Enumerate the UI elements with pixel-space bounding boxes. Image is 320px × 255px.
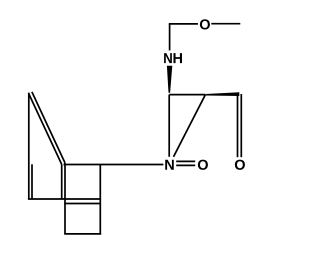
bond square middle horizontal <box>64 203 101 205</box>
wedge bond C2 to CHO <box>206 92 240 96</box>
atom O nitroso <box>198 160 208 170</box>
bond long horizontal lower <box>28 198 101 200</box>
double bond C=O aldehyde line 2 <box>240 94 242 157</box>
bond C1-C2 ring top <box>169 94 205 96</box>
wedge bond NH to C1 <box>167 66 172 93</box>
bond CH2 corner vertical down to NH <box>169 24 171 51</box>
bond C1-N ring left vertical <box>168 95 170 157</box>
atom N nitroso <box>165 160 174 170</box>
double bond C=O aldehyde line 1 <box>237 94 239 157</box>
double bond diagonal line 2 <box>32 92 65 163</box>
double bond partner inner vertical <box>61 164 63 199</box>
bond apex left vertical <box>28 93 30 199</box>
atom O aldehyde <box>235 160 245 170</box>
double bond diagonal line 1 <box>29 93 62 164</box>
atom N of NH amine <box>164 53 172 63</box>
bond C2-N ring diagonal <box>174 95 206 157</box>
bond square bottom horizontal <box>64 233 101 235</box>
bond O to CH3 (horizontal) <box>211 23 240 25</box>
bond right vertical (square right edge) <box>99 165 101 234</box>
bond inner left vertical (square left edge) <box>64 163 66 234</box>
double bond partner left vertical <box>31 164 33 199</box>
double bond N=O line 1 <box>176 160 195 162</box>
bond N to ring (long horizontal) <box>64 164 164 166</box>
bond CH2 to O (horizontal) <box>169 23 198 25</box>
atom H of NH amine <box>173 53 182 63</box>
double bond N=O line 2 <box>176 164 195 166</box>
atom O ether <box>200 19 210 29</box>
